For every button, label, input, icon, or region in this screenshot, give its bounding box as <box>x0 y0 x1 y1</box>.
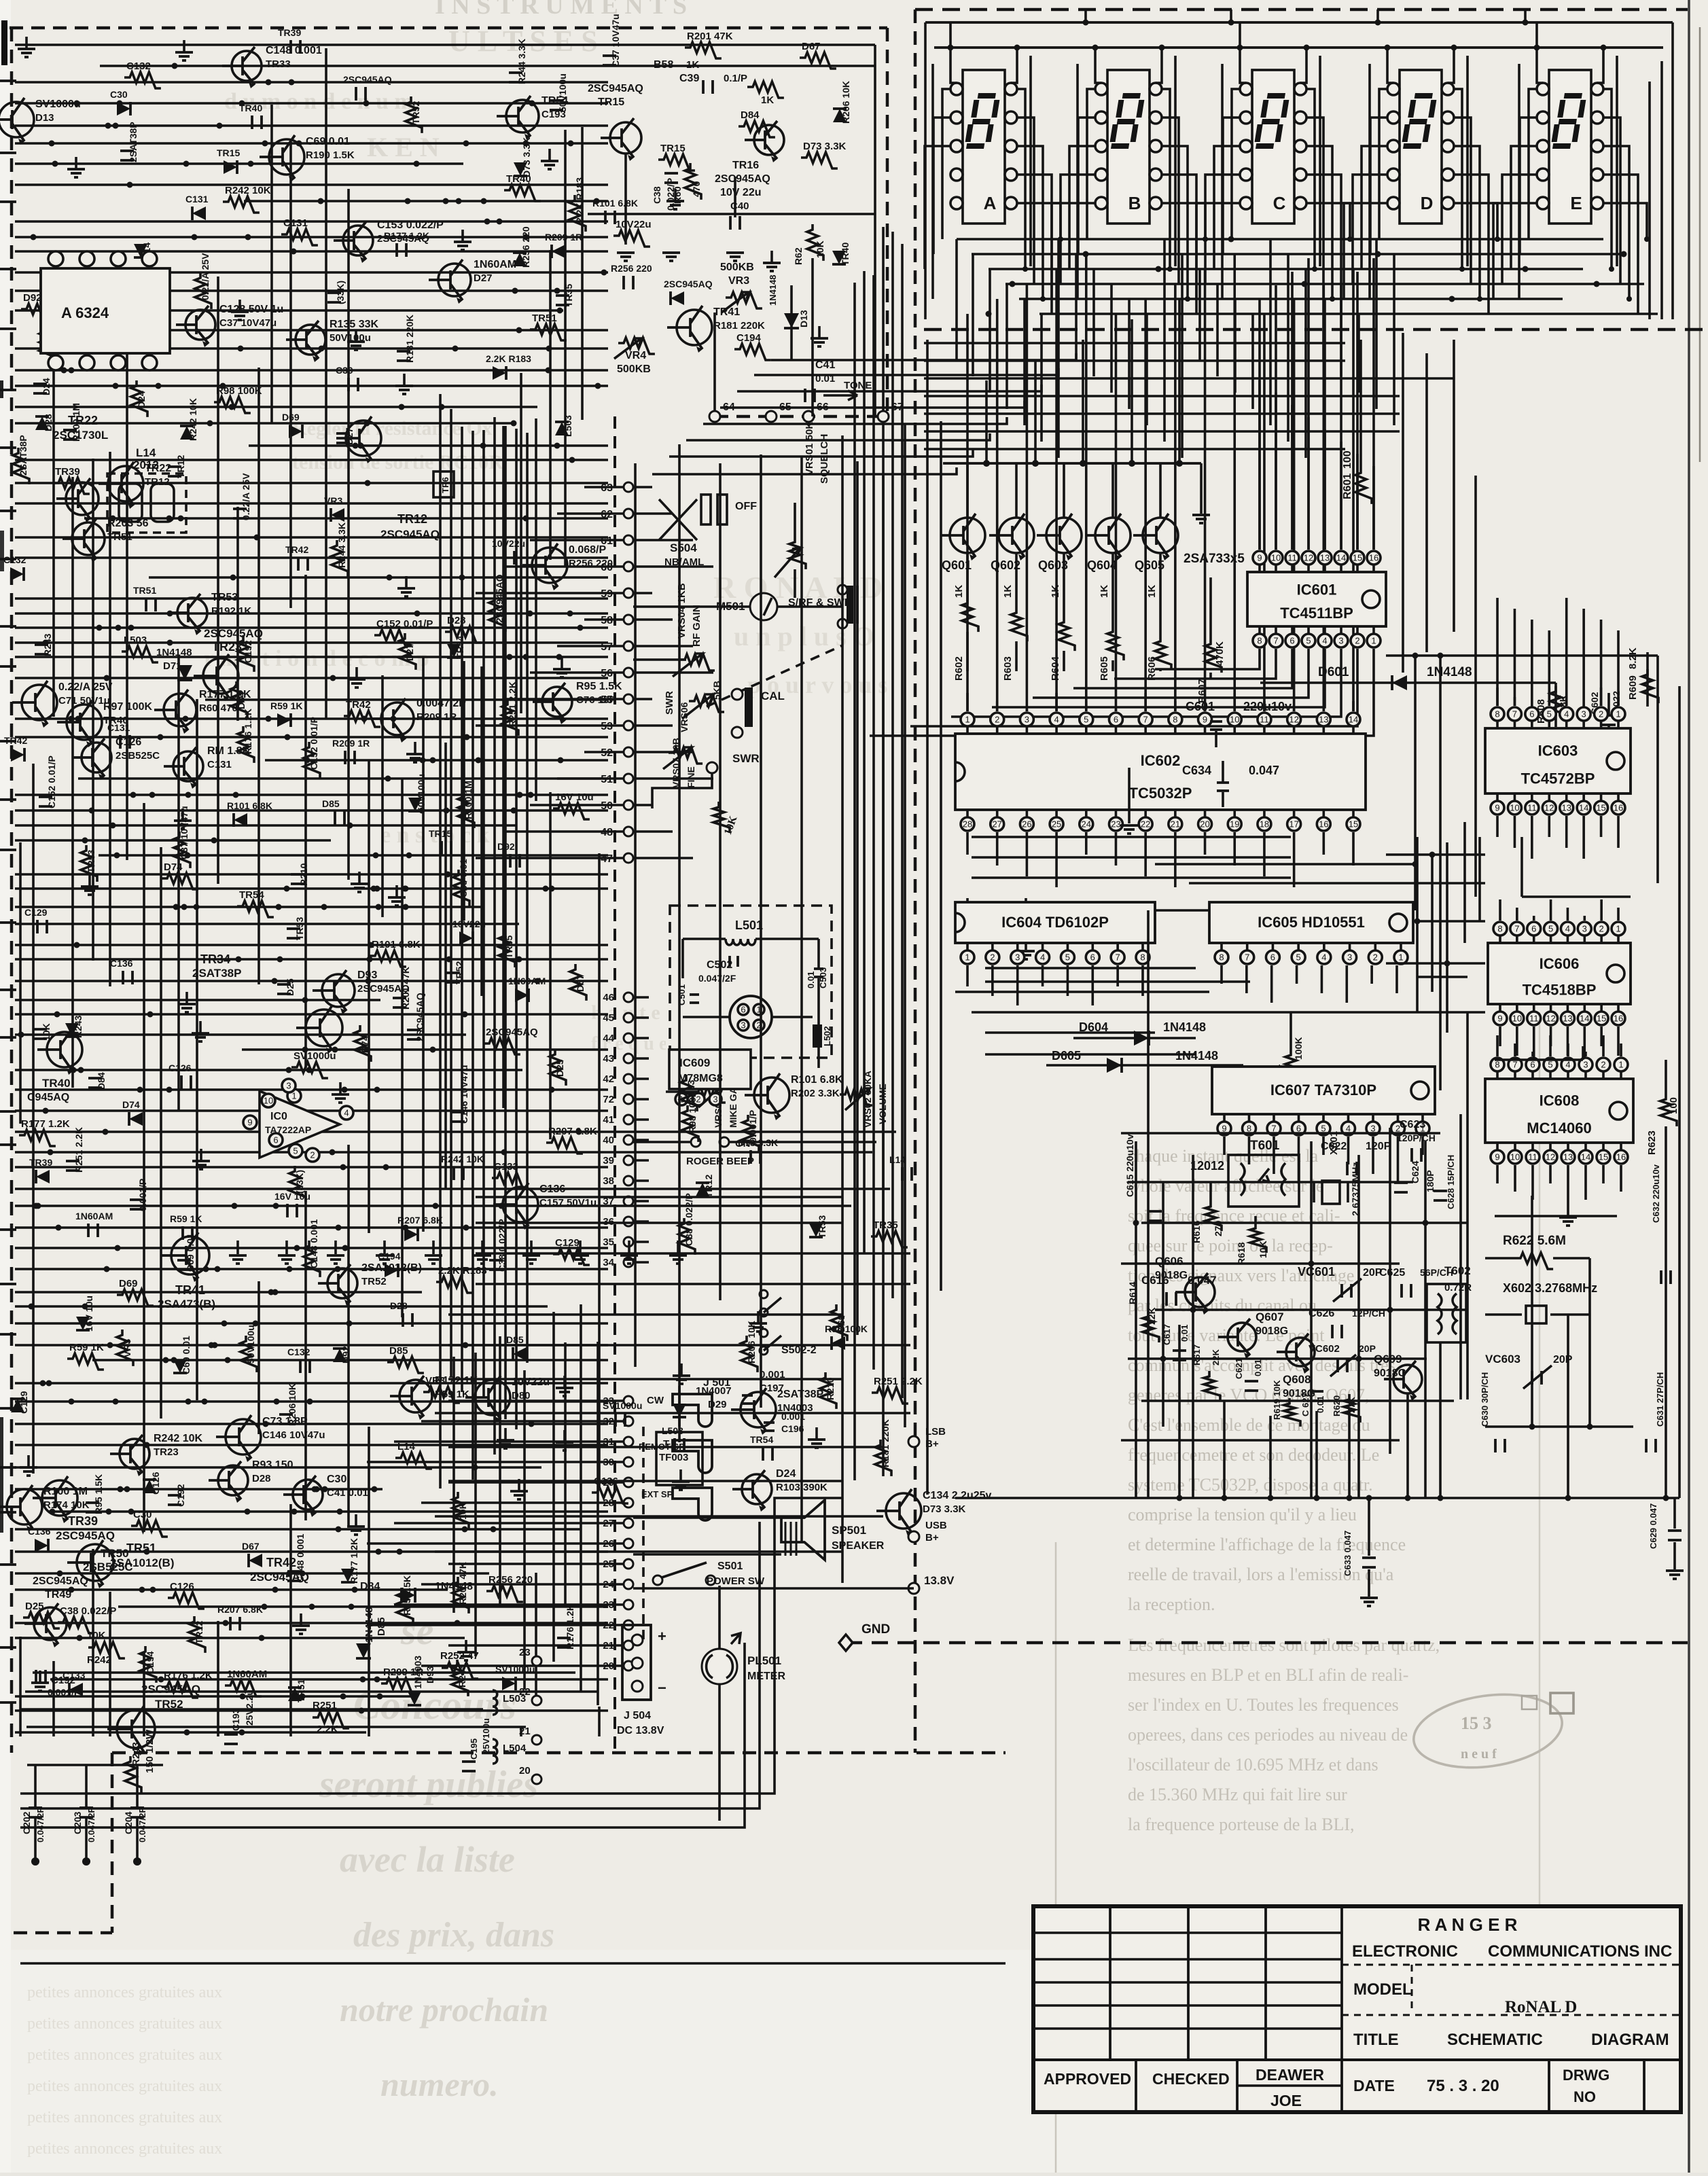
svg-text:R181 220K: R181 220K <box>404 315 415 363</box>
svg-text:10V22u: 10V22u <box>452 918 486 929</box>
svg-text:MC14060: MC14060 <box>1527 1120 1591 1137</box>
wire long bottom rectangle <box>20 1498 842 1794</box>
wire display to IC602 <box>1085 254 1088 711</box>
transistor Q603 <box>1046 518 1082 553</box>
wire display column <box>931 64 934 299</box>
svg-text:R176 1.2K: R176 1.2K <box>164 1670 213 1681</box>
svg-text:IC605 HD10551: IC605 HD10551 <box>1258 914 1365 931</box>
wire staircase <box>771 353 1076 360</box>
resistor D86 <box>223 196 260 213</box>
svg-text:R192 1K: R192 1K <box>211 605 251 617</box>
svg-text:D28: D28 <box>252 1473 271 1484</box>
svg-text:8: 8 <box>1140 952 1145 963</box>
ground <box>530 1241 533 1254</box>
wire display to decoder <box>1304 269 1307 458</box>
svg-text:16V 10u: 16V 10u <box>84 1296 94 1332</box>
svg-text:2: 2 <box>1373 952 1378 963</box>
svg-text:R209 1R: R209 1R <box>332 738 370 749</box>
ground <box>818 326 821 338</box>
svg-text:12: 12 <box>1289 715 1298 725</box>
transistor Q608 <box>1286 1338 1315 1366</box>
transistor TR52 <box>117 1710 155 1748</box>
wire staircase <box>737 385 1042 391</box>
svg-text:44: 44 <box>603 1033 614 1044</box>
svg-text:R603: R603 <box>1002 656 1014 681</box>
ground IC608 <box>1567 1192 1569 1216</box>
terminal 48 <box>624 827 633 836</box>
svg-text:15 3: 15 3 <box>1461 1713 1492 1733</box>
capacitor C203 0.047/2F <box>85 1765 88 1807</box>
svg-text:VR4: VR4 <box>625 350 646 361</box>
wire bus h <box>15 656 608 658</box>
diode 1N4148 <box>143 1480 156 1493</box>
ground <box>200 1149 202 1161</box>
resistor C72 <box>685 42 722 58</box>
svg-text:M78MG8: M78MG8 <box>678 1073 723 1084</box>
svg-text:R243: R243 <box>130 1742 142 1766</box>
wire display to IC601 <box>1323 299 1326 550</box>
wire mid v <box>678 444 681 1442</box>
transistor C129 <box>72 522 105 555</box>
svg-text:C37 10V47u: C37 10V47u <box>219 317 277 329</box>
svg-text:D605: D605 <box>1052 1049 1081 1063</box>
svg-text:6: 6 <box>1289 636 1294 646</box>
capacitor C153 0.022/P <box>407 1030 421 1039</box>
terminal 26 <box>624 1539 633 1548</box>
wire bus v2 <box>92 1549 94 1736</box>
wire bundle v <box>450 409 452 1376</box>
junction top bus <box>1523 20 1529 26</box>
svg-text:Les frequencemetres sont pi: Les frequencemetres sont pilotes par qua… <box>1128 1635 1440 1655</box>
wire display to IC603 <box>1496 598 1499 706</box>
svg-text:R101 6.8K: R101 6.8K <box>592 198 638 209</box>
svg-text:4: 4 <box>344 1108 349 1118</box>
svg-text:C126: C126 <box>170 1581 194 1592</box>
capacitor R192 1K <box>279 1414 293 1424</box>
svg-text:67: 67 <box>891 402 904 413</box>
wire bundle v <box>472 431 474 1480</box>
svg-text:X602 3.2768MHz: X602 3.2768MHz <box>1503 1281 1597 1295</box>
wire bus v2 <box>535 1573 537 1702</box>
svg-text:16: 16 <box>1369 553 1378 563</box>
wire display to IC602 <box>1293 299 1296 711</box>
wire display to IC602 <box>1055 269 1058 711</box>
svg-text:2SAT38P: 2SAT38P <box>18 435 29 476</box>
svg-text:0.001/P: 0.001/P <box>48 1687 80 1698</box>
wire display to decoder <box>1163 239 1166 442</box>
ground <box>339 1082 342 1094</box>
svg-text:66: 66 <box>817 402 829 413</box>
svg-text:TR23: TR23 <box>212 640 242 654</box>
svg-text:D27: D27 <box>404 643 415 661</box>
wire v <box>1416 837 1419 1012</box>
title block grid horizontals <box>1033 1931 1342 1934</box>
svg-text:TR50: TR50 <box>101 1547 129 1560</box>
resistor C147 <box>397 1588 413 1624</box>
wire bundle left-div <box>901 244 904 1398</box>
wire bus h <box>15 289 608 292</box>
wire display to decoder <box>1234 299 1236 393</box>
transistor D49 <box>177 598 207 628</box>
svg-text:2.2K: 2.2K <box>317 1724 338 1735</box>
svg-text:R181 220K: R181 220K <box>713 320 765 332</box>
capacitor D80 <box>335 811 344 825</box>
terminal 62 <box>624 509 633 518</box>
wire IC606 to IC608 verticals <box>1582 1046 1584 1060</box>
wire bus v <box>581 127 584 420</box>
wires L501 box <box>681 939 684 978</box>
svg-text:3: 3 <box>713 1094 717 1105</box>
svg-text:TR35: TR35 <box>503 935 514 959</box>
wire bus h <box>249 444 608 447</box>
svg-text:0.047/2F: 0.047/2F <box>698 973 736 984</box>
svg-text:R59 1K: R59 1K <box>69 1342 104 1353</box>
wire display to decoder <box>955 239 958 360</box>
resistor R? top strip <box>747 82 784 98</box>
transistor D86 <box>120 1439 149 1469</box>
svg-text:10K: 10K <box>815 240 825 258</box>
svg-text:D73 3.3K: D73 3.3K <box>803 141 847 152</box>
terminal 41 <box>624 1115 633 1124</box>
svg-text:TR35: TR35 <box>563 284 574 307</box>
svg-text:L503: L503 <box>563 415 573 437</box>
wire bus h <box>15 1382 608 1385</box>
IC602 TC5032P <box>955 734 1366 810</box>
wire vco h1 <box>1121 1132 1440 1135</box>
svg-text:9: 9 <box>1495 803 1499 813</box>
svg-text:IC603: IC603 <box>1538 742 1578 759</box>
svg-text:TR39: TR39 <box>55 466 80 478</box>
svg-text:C37 10V47u: C37 10V47u <box>610 14 621 67</box>
resistor 0.068/P <box>486 1586 523 1602</box>
wire display to decoder <box>1251 314 1254 409</box>
svg-text:TR12: TR12 <box>175 455 186 478</box>
terminal 20 <box>532 1774 541 1784</box>
wire vco v6 <box>1389 1128 1391 1454</box>
13.8V node <box>908 1583 919 1594</box>
resistor 0.0047P <box>304 742 320 779</box>
wire h <box>1386 962 1485 965</box>
transistor TR23 <box>203 658 238 694</box>
svg-text:R176 1.2K: R176 1.2K <box>243 709 253 754</box>
wires IC601 bottom mesh <box>1155 649 1260 669</box>
capacitor R203 56 <box>146 598 156 611</box>
transistor TR12 <box>346 421 381 456</box>
svg-text:D69: D69 <box>282 412 300 423</box>
svg-text:R604: R604 <box>1050 656 1061 681</box>
svg-text:21: 21 <box>1171 819 1180 830</box>
svg-text:14: 14 <box>1579 803 1588 813</box>
svg-text:7: 7 <box>1512 709 1517 719</box>
wire right horizontal link 2 <box>1155 863 1415 866</box>
wire bus h <box>15 641 608 644</box>
ground <box>39 1671 41 1683</box>
svg-text:SV1000u: SV1000u <box>35 99 81 110</box>
wire bus v2 <box>143 1652 145 1736</box>
IC604 TD6102P <box>955 902 1155 943</box>
junction dots lower bus <box>1177 1495 1183 1501</box>
svg-text:220u10v: 220u10v <box>1243 700 1292 713</box>
svg-text:D73 3.3K: D73 3.3K <box>738 1137 778 1148</box>
wire display to IC601 <box>1258 299 1261 550</box>
IC601 TC4511BP <box>1247 572 1386 626</box>
wire bus h <box>15 839 331 842</box>
VR501 SQUELCH <box>794 503 796 537</box>
wire bus h <box>15 1466 541 1469</box>
resistor R245 33K <box>872 1387 908 1404</box>
terminal 20 <box>624 1661 633 1671</box>
svg-text:43: 43 <box>603 1053 614 1065</box>
IC607 TA7310P <box>1212 1067 1435 1114</box>
wire bus v2 <box>598 1707 601 1736</box>
resistor 500KB <box>613 230 650 247</box>
wire GND drop C633 <box>1368 1498 1370 1556</box>
svg-text:TR40: TR40 <box>42 1077 71 1090</box>
resistor C71 50V1u <box>820 1372 836 1409</box>
wire bus h <box>15 626 608 629</box>
svg-text:4: 4 <box>1564 709 1569 719</box>
capacitor 1N4003 <box>509 73 522 82</box>
wire bus h <box>15 482 608 484</box>
svg-text:2SC945AQ: 2SC945AQ <box>715 173 770 185</box>
svg-text:10K: 10K <box>457 1502 468 1520</box>
transistor TR40 <box>47 1032 82 1067</box>
svg-text:1: 1 <box>1618 1060 1623 1070</box>
svg-text:2: 2 <box>1601 1060 1605 1070</box>
svg-text:R209 1R: R209 1R <box>545 232 582 243</box>
diode TR22 <box>696 1183 709 1196</box>
diode D13 <box>784 313 799 328</box>
svg-text:TR51: TR51 <box>532 313 557 324</box>
GND diamond <box>839 1635 853 1651</box>
junction top bus <box>1228 20 1234 26</box>
svg-text:D67: D67 <box>242 1541 260 1552</box>
svg-text:D85: D85 <box>506 1334 524 1345</box>
wire display to IC601 <box>1372 258 1375 550</box>
svg-text:+: + <box>658 1628 666 1645</box>
ground Q bus <box>1200 463 1203 514</box>
ground <box>579 1241 582 1254</box>
wire display to IC602 <box>966 314 969 711</box>
svg-text:C30: C30 <box>327 1474 346 1485</box>
svg-text:13: 13 <box>1320 553 1330 563</box>
wire bottom-middle v <box>580 1304 582 1692</box>
L501 socket <box>730 996 772 1038</box>
svg-text:R59 1K: R59 1K <box>170 1213 202 1224</box>
svg-text:C192: C192 <box>243 640 253 663</box>
svg-text:15: 15 <box>1599 1152 1608 1162</box>
svg-text:35: 35 <box>603 1236 614 1248</box>
wire mid v <box>760 454 762 1408</box>
diode R99 6.8K <box>502 1677 516 1690</box>
capacitor R46 10K <box>88 1078 102 1088</box>
svg-text:1N4148: 1N4148 <box>1175 1049 1218 1063</box>
transistor R243 <box>108 466 143 501</box>
svg-text:IC601: IC601 <box>1297 582 1337 599</box>
wire display column <box>1319 56 1321 266</box>
svg-text:C126: C126 <box>150 1472 161 1495</box>
diode TR23 <box>76 1317 90 1330</box>
ground <box>563 1376 566 1388</box>
svg-text:R251: R251 <box>313 1700 337 1711</box>
svg-text:C40: C40 <box>730 200 749 212</box>
wire bus h <box>15 1247 608 1249</box>
wire bus v2 <box>549 792 552 1139</box>
display top bus 1 <box>925 21 1673 24</box>
svg-text:8: 8 <box>1219 952 1224 963</box>
svg-text:2: 2 <box>1599 709 1603 719</box>
capacitor R174 10K <box>327 293 341 302</box>
wire bus h <box>265 759 608 762</box>
transistor C155 P.3M <box>232 51 262 81</box>
wire display to decoder <box>1128 299 1131 409</box>
terminal 23 <box>624 1600 633 1609</box>
wire bus v2 <box>217 1621 219 1736</box>
resistor 10K right strip <box>807 224 823 261</box>
svg-text:petites annonces gratuites: petites annonces gratuites aux <box>27 2015 222 2033</box>
svg-text:TR52: TR52 <box>410 101 421 124</box>
svg-text:DIAGRAM: DIAGRAM <box>1591 2031 1669 2049</box>
diode TP6 <box>341 1569 355 1582</box>
svg-text:TR12: TR12 <box>194 1621 204 1644</box>
svg-text:25V2.2u: 25V2.2u <box>244 1690 255 1726</box>
wire bottom-middle h <box>435 1515 883 1518</box>
ground <box>674 189 677 201</box>
wire display to decoder <box>1393 254 1395 425</box>
terminal 23 <box>532 1656 541 1666</box>
wire display to IC602 <box>1263 314 1266 711</box>
svg-text:D74: D74 <box>122 1099 140 1110</box>
diode C70 220P <box>117 102 130 115</box>
svg-text:3: 3 <box>1025 715 1029 725</box>
svg-text:13: 13 <box>1563 1152 1573 1162</box>
svg-text:10: 10 <box>1271 553 1281 563</box>
terminal 57 <box>624 641 633 651</box>
svg-text:frequencemetre et son decod: frequencemetre et son decodeur. Le <box>1128 1445 1379 1465</box>
svg-text:14: 14 <box>1336 553 1346 563</box>
svg-text:TR51: TR51 <box>133 585 156 596</box>
capacitor 0.0047/2P <box>345 751 355 764</box>
svg-text:C38 0.022/P: C38 0.022/P <box>60 1605 116 1617</box>
wire mid v <box>719 463 722 1300</box>
wire staircase <box>720 401 1025 408</box>
wire right edge vertical long <box>1678 686 1681 1498</box>
faint column rules <box>1055 1542 1057 2173</box>
svg-text:D29: D29 <box>708 1399 727 1410</box>
terminal 44 <box>624 1033 633 1043</box>
wire bus v <box>444 743 447 1188</box>
svg-text:T601: T601 <box>1250 1139 1280 1153</box>
capacitor D93 <box>356 87 366 101</box>
resistor 0.0047P <box>374 630 411 646</box>
svg-text:IC608: IC608 <box>1540 1092 1580 1109</box>
wire display top leads <box>950 48 957 83</box>
svg-text:OFF: OFF <box>735 501 757 512</box>
svg-text:CHECKED: CHECKED <box>1152 2070 1230 2088</box>
wire bus verticals below ICs <box>1178 1325 1181 1498</box>
wires IC607 bottom <box>1223 1137 1226 1155</box>
transistor TR42 <box>381 702 414 735</box>
capacitor C601 symbol <box>1210 721 1222 730</box>
dashed border bottom-left jog horizontal <box>14 1931 112 1935</box>
svg-text:B: B <box>1128 193 1141 213</box>
svg-text:C30: C30 <box>110 89 128 100</box>
terminal 29 <box>624 1478 633 1487</box>
wire vco v5 <box>1357 1155 1360 1498</box>
svg-text:40: 40 <box>603 1135 614 1146</box>
diode 2SC1730L <box>832 1336 845 1350</box>
resistor R46 10K <box>231 681 247 718</box>
resistor 1N60AM <box>399 633 416 670</box>
svg-text:TR23: TR23 <box>154 1446 179 1458</box>
R618 10K <box>1254 1216 1257 1223</box>
svg-text:41: 41 <box>603 1114 614 1126</box>
wire display to decoder <box>1216 284 1219 376</box>
svg-text:1K: 1K <box>761 94 774 106</box>
wire bottom-middle h <box>476 1196 842 1198</box>
svg-text:20: 20 <box>1200 819 1209 830</box>
resistor C72 <box>452 1577 469 1613</box>
svg-text:0.047/2F: 0.047/2F <box>86 1808 96 1842</box>
wire bus h <box>15 906 484 908</box>
svg-text:9: 9 <box>1497 1014 1502 1024</box>
svg-text:R242 10K: R242 10K <box>225 185 271 196</box>
svg-text:C 627: C 627 <box>1300 1393 1311 1416</box>
svg-text:1: 1 <box>1616 709 1620 719</box>
diode R252 4.7 <box>129 1112 143 1126</box>
wire vco v3 <box>1192 1155 1194 1498</box>
wire bus h <box>15 1322 608 1325</box>
svg-text:2SC945AQ: 2SC945AQ <box>414 993 425 1041</box>
transistor TR39 <box>42 1480 77 1516</box>
svg-text:C628 15P/CH: C628 15P/CH <box>1446 1155 1456 1209</box>
wire bus h <box>15 422 514 425</box>
svg-text:IC609: IC609 <box>679 1056 710 1069</box>
wire bus v2 <box>289 1504 292 1736</box>
resistor C153 0.022/P <box>489 595 505 632</box>
wire display to IC601 <box>1291 272 1294 550</box>
wire display to IC602 <box>1204 269 1207 711</box>
diode R247 100K <box>249 1554 262 1567</box>
svg-text:TR15: TR15 <box>598 96 624 108</box>
wire bus h <box>84 517 608 520</box>
L501 dashed enclosure <box>666 902 836 1062</box>
svg-text:INC: INC <box>1644 1942 1672 1961</box>
svg-text:9: 9 <box>1203 715 1207 725</box>
wire bus h <box>15 1205 851 1207</box>
terminal 32 <box>624 1416 633 1426</box>
svg-text:VR3: VR3 <box>122 1339 132 1357</box>
svg-text:R177 1.2K: R177 1.2K <box>384 230 429 241</box>
wire bus h <box>15 677 608 679</box>
ground IC602 <box>1025 898 1027 950</box>
junction dots vco <box>1133 1220 1139 1226</box>
capacitor D13 <box>300 1359 310 1373</box>
ground <box>465 1640 467 1652</box>
resistor 2SA1012(B) <box>406 96 422 133</box>
terminal 22 <box>624 1620 633 1630</box>
svg-text:TR16: TR16 <box>732 160 759 171</box>
svg-text:D67: D67 <box>802 41 821 52</box>
svg-text:R98 100K: R98 100K <box>825 1323 868 1334</box>
svg-text:IC604 TD6102P: IC604 TD6102P <box>1001 914 1109 931</box>
terminal 24 <box>624 1580 633 1589</box>
svg-text:20: 20 <box>519 1765 531 1777</box>
svg-text:2SC945AQ: 2SC945AQ <box>380 528 440 541</box>
svg-text:TC4511BP: TC4511BP <box>1280 605 1353 622</box>
svg-text:ser l'index en U. Toutes: ser l'index en U. Toutes les frequences <box>1128 1695 1399 1715</box>
svg-text:5: 5 <box>1548 924 1553 934</box>
